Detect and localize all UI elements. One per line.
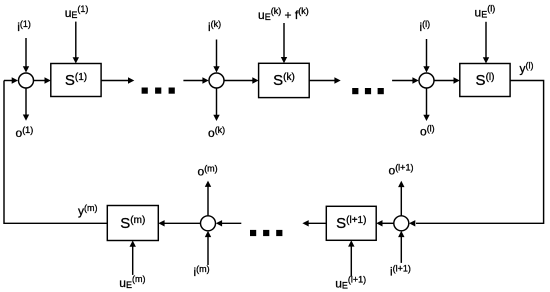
label uE(m) [119, 274, 145, 290]
wire i(l) input arrow into sum3 [423, 39, 429, 73]
label i(1) [17, 19, 31, 34]
node sum3 (summing junction, l) [419, 73, 434, 88]
label o(m) [198, 163, 218, 178]
wire into sum5 [216, 220, 242, 226]
label uE(l) [475, 3, 496, 19]
wire sum5 to S(m) [158, 220, 200, 226]
label i(k) [208, 19, 221, 34]
wire uE(m) input arrow up into S(m) bottom [130, 241, 136, 275]
block S(l+1) [326, 206, 376, 240]
label i(l) [420, 19, 431, 34]
wire o(k) output arrow down from sum2 [213, 88, 219, 121]
label o(k) [208, 125, 225, 140]
wire into sum2 [183, 77, 208, 83]
label uE(k)+f(k) [258, 6, 309, 22]
wire y(m) feedback from S(m) left and up the left edge [4, 81, 107, 224]
label y(m) [78, 203, 98, 218]
wire feedback arrow into sum1 from left [4, 77, 18, 83]
node sum4 (summing junction, l+1) [394, 216, 409, 231]
block S1 [51, 64, 101, 97]
block S(k) [259, 63, 310, 97]
label i(m) [194, 264, 210, 279]
wire uE(1) input arrow into S(1) top [73, 22, 79, 64]
wire into sum3 [392, 77, 419, 83]
label uE(1) [65, 4, 89, 20]
node sum2 (summing junction, k) [209, 73, 224, 88]
wire sum3 to S(l) [434, 77, 460, 83]
node sum1 (summing junction, top-left) [19, 73, 34, 88]
label o(l+1) [389, 163, 414, 178]
wire o(1) output arrow down from sum1 [23, 88, 29, 121]
node sum5 (summing junction, m) [201, 216, 216, 231]
wire o(m) output arrow up from sum5 [205, 181, 211, 216]
label uE(l+1) [335, 274, 366, 290]
block S(l) [460, 64, 510, 97]
wire o(l+1) output arrow up from sum4 [398, 181, 404, 216]
node dots3 (ellipsis) [250, 230, 282, 236]
block S(m) [107, 206, 158, 241]
node dots1 (ellipsis) [142, 88, 175, 94]
wire S(k) output arrow right [309, 77, 341, 83]
wire i(l+1) input arrow up into sum4 [398, 231, 404, 263]
wire sum1 to S(1) [34, 77, 51, 83]
wire i(k) input arrow into sum2 [213, 40, 219, 73]
wire S1 output arrow right [101, 77, 134, 83]
wire sum2 to S(k) [224, 77, 259, 83]
wire i(m) input arrow up into sum5 [205, 231, 211, 265]
wire uE(l+1) input arrow up into S(l+1) bottom [348, 240, 354, 276]
wire S(l+1) output arrow left [302, 220, 326, 226]
wire i(1) input arrow into sum1 [23, 38, 29, 73]
wire o(l) output arrow down from sum3 [423, 88, 429, 121]
wire y(l) feedback from S(l) to sum4: right, down right edge, left [409, 81, 544, 227]
label i(l+1) [390, 264, 411, 279]
label y(l) [520, 61, 534, 76]
label o(1) [16, 125, 34, 140]
wire sum4 to S(l+1) [376, 220, 394, 226]
label o(l) [420, 124, 435, 139]
wire uE(k)+f(k) input arrow into S(k) top [281, 23, 287, 63]
wire uE(l) input arrow into S(l) top [483, 22, 489, 64]
node dots2 (ellipsis) [352, 88, 384, 94]
